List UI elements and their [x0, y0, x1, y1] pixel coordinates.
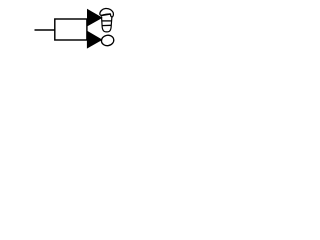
cap rim chord (inner edge of dome): [101, 14, 110, 15]
thread line 2 on icon body: [102, 24, 111, 26]
arrow top (output, points right at top icon): [87, 9, 103, 27]
arrow bottom (output, points right at oval icon): [87, 31, 103, 49]
wire (input lead, left): [35, 29, 56, 31]
box (device / black box): [55, 19, 87, 40]
background: [0, 0, 150, 59]
cap (dome of top icon): [100, 9, 114, 17]
thread line 1 on icon body: [102, 20, 112, 22]
indicator icon top (acorn/bulb pictogram) body: [102, 16, 112, 32]
oval icon bottom (egg pictogram): [101, 34, 115, 46]
